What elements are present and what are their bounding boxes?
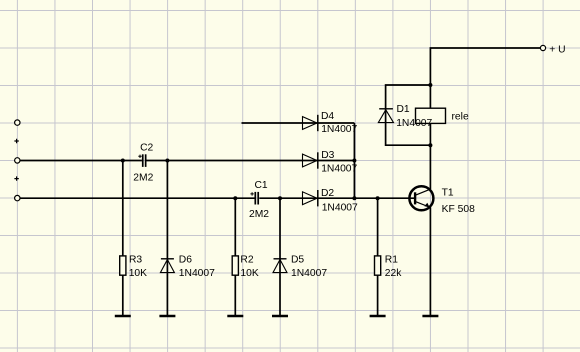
svg-text:2M2: 2M2 [249,209,269,220]
capacitor C1 [249,180,269,220]
svg-text:D5: D5 [291,255,304,266]
junction dot R1 top [376,196,380,200]
svg-text:1N4007: 1N4007 [396,118,432,129]
svg-text:1N4007: 1N4007 [322,202,358,213]
node input terminal 3 [15,195,20,200]
svg-text:D1: D1 [397,104,410,115]
node input terminal 2 [15,158,20,163]
wire D6 branch [166,161,168,316]
wire emitter to ground [429,207,431,315]
wire R2 branch [234,198,236,315]
svg-text:R1: R1 [385,255,398,266]
wire top +U rail [430,48,540,85]
diode D3 [303,150,358,175]
junction dot C2 right / D6 top [165,159,169,163]
relay coil rele [416,108,469,123]
junction dot relay top [428,83,432,87]
ground (D5 branch) [272,315,288,318]
junction dot R2 top [233,196,237,200]
svg-text:KF 508: KF 508 [442,204,475,215]
wire R3 branch [122,161,124,316]
node input terminal 1 [15,120,20,125]
node +U terminal [540,45,545,50]
svg-text:D3: D3 [321,150,334,161]
resistor R2 [232,255,259,279]
junction dot C2 left [121,159,125,163]
diode D5 [273,255,327,279]
ground (R3 branch) [115,315,131,318]
svg-text:D6: D6 [179,255,192,266]
svg-text:+ U: + U [549,45,565,56]
ground (D6 branch) [159,315,175,318]
svg-text:10K: 10K [240,268,258,279]
svg-text:R3: R3 [129,255,142,266]
wire collecting vertical [353,123,355,198]
junction dot relay bottom [428,143,432,147]
diode D6 [160,255,215,279]
ground (R1 branch) [370,315,386,318]
wire D5 branch [279,198,281,315]
svg-text:22k: 22k [385,268,402,279]
ground (R2 branch) [227,315,243,318]
wire main vertical relay to collector [429,85,431,108]
resistor R3 [120,255,147,279]
junction dot D2 out [352,196,356,200]
svg-text:1N4007: 1N4007 [291,268,327,279]
svg-text:C1: C1 [255,180,268,191]
svg-text:1N4007: 1N4007 [321,124,357,135]
svg-text:10K: 10K [129,268,147,279]
svg-text:2M2: 2M2 [133,173,153,184]
polarity + mark 1 [14,139,18,143]
svg-text:D4: D4 [321,111,334,122]
svg-text:C2: C2 [140,143,153,154]
svg-text:1N4007: 1N4007 [321,164,357,175]
junction dot D5 top [278,196,282,200]
wire relay loop left (D1 branch) [386,85,431,145]
wire D4 row [242,122,355,124]
diode D2 [303,188,359,214]
diode D1 [378,104,432,129]
transistor T1 [409,186,475,215]
wire D3 row [20,160,142,162]
wire R1 branch [377,198,379,315]
junction dot D3 out [352,159,356,163]
svg-text:rele: rele [452,112,469,123]
ground (emitter) [422,315,438,318]
svg-text:D2: D2 [321,188,334,199]
svg-text:R2: R2 [240,255,253,266]
diode D4 [303,111,358,135]
svg-text:1N4007: 1N4007 [179,268,215,279]
svg-text:T1: T1 [442,187,454,198]
capacitor C2 [133,143,153,184]
resistor R1 [375,255,403,279]
polarity + mark 2 [14,176,18,180]
wire D2 row / base [20,197,255,199]
